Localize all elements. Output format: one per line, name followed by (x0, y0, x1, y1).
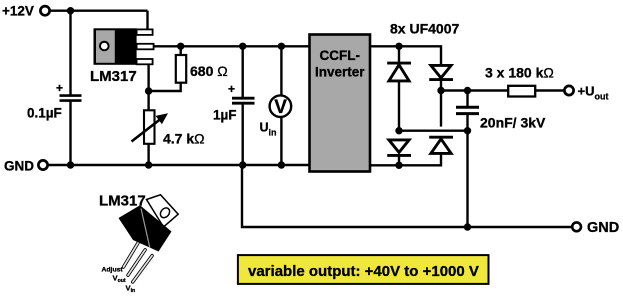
wire LM317 adj pin down (147, 64, 149, 111)
potentiometer P1 4.7k body (144, 110, 155, 144)
terminal +Uout (564, 86, 573, 95)
wire voltmeter branch lower (280, 117, 282, 165)
wire resistor to Uout terminal (535, 89, 564, 91)
node pot bottom junction (145, 161, 152, 168)
wire cap 20nF bottom lead (466, 115, 468, 131)
svg-text:GND: GND (587, 220, 619, 236)
wire out node horizontal (441, 89, 508, 91)
diode D2 (A bottom, pointing down) (387, 140, 411, 156)
body black box (119, 205, 172, 251)
resistor R2 3x180k (508, 86, 535, 97)
wire 680 top lead (179, 46, 181, 55)
svg-text:4.7 kΩ: 4.7 kΩ (163, 131, 205, 147)
wire voltmeter branch upper (280, 46, 282, 95)
wire 1uF branch lower (241, 104, 243, 165)
wire lower GND rail (242, 165, 572, 227)
wire 680 bottom lead to adj node (148, 83, 181, 92)
svg-text:+: + (228, 82, 235, 96)
svg-text:Inverter: Inverter (315, 65, 365, 80)
node B mid junction (437, 87, 444, 94)
wire mid rail from LM317 out (154, 45, 313, 47)
terminal GND left (38, 160, 47, 169)
node 1uF bottom junction (239, 161, 246, 168)
callout variable output box (238, 255, 489, 284)
svg-text:CCFL-: CCFL- (320, 48, 361, 63)
wire diode A top lead (398, 46, 400, 62)
wire GND rail left (48, 164, 312, 166)
wire diode B1 to mid node (440, 80, 442, 90)
svg-text:1µF: 1µF (213, 108, 237, 123)
pin Vin (top) (137, 29, 153, 35)
diode D3 (B top, pointing down) (429, 65, 453, 79)
wire cap 20nF top lead (466, 91, 468, 107)
voltmeter V1 (270, 95, 292, 118)
node adj junction (145, 87, 152, 94)
node 1uF top junction (239, 43, 246, 50)
capacitor C3 20nF plates (456, 107, 479, 113)
terminal GND right (572, 222, 581, 231)
node voltmeter bottom junction (278, 161, 285, 168)
potentiometer P1 arrow (132, 113, 169, 141)
svg-text:+: + (56, 81, 63, 95)
resistor R1 680 ohm (176, 55, 186, 83)
wire B mid down with crossover gap (440, 91, 442, 127)
svg-text:LM317: LM317 (90, 68, 137, 85)
node gnd-left junction (67, 161, 74, 168)
diode D4 (B bottom, pointing up) (429, 137, 453, 153)
wire diode A middle lead (398, 81, 400, 131)
wire 1uF branch upper (241, 46, 243, 97)
node cap-bottom junction (464, 127, 471, 134)
capacitor C1 0.1uF plates (60, 96, 82, 101)
wire top rail +12V (50, 9, 148, 11)
node voltmeter top junction (278, 43, 285, 50)
node A bottom junction (395, 162, 402, 169)
diode D1 (A top, pointing up) (387, 63, 411, 81)
svg-text:20nF/ 3kV: 20nF/ 3kV (480, 115, 546, 131)
svg-text:GND: GND (4, 159, 34, 174)
wire cap bottom to gnd rail (466, 131, 468, 227)
node A mid junction (395, 127, 402, 134)
pin Adj (bottom) (137, 59, 153, 64)
wire left rail lower (69, 102, 71, 166)
svg-text:3 x 180 kΩ: 3 x 180 kΩ (485, 65, 554, 81)
svg-text:variable output: +40V to +1000: variable output: +40V to +1000 V (248, 263, 479, 280)
wire inverter out top to diode B (368, 46, 441, 65)
svg-text:+12V: +12V (2, 4, 34, 19)
pin Vout (middle) (137, 44, 154, 50)
legs (124, 243, 153, 282)
node gnd rail junction (464, 223, 471, 230)
LM317 TO-220 3D package drawing (119, 195, 179, 282)
svg-text:V: V (274, 97, 287, 118)
wire pot bottom lead (147, 144, 149, 165)
wire vertical to LM317 Vin pin (146, 11, 148, 30)
CCFL inverter block U2 (310, 35, 371, 172)
node 680 top junction (177, 43, 184, 50)
tab metal with hole (147, 195, 179, 227)
node out junction (464, 87, 471, 94)
svg-text:8x UF4007: 8x UF4007 (390, 21, 459, 37)
wire mid horizontal A-mid to cap bottom (399, 129, 468, 131)
terminal +12V (40, 6, 49, 15)
capacitor C2 1uF plates (232, 98, 255, 103)
wire left rail upper (69, 11, 71, 95)
node bridge top junction (395, 43, 402, 50)
node top-left junction (67, 7, 74, 14)
wire diode A bottom lead (398, 156, 400, 165)
wire inverter out bottom to diode B2 (368, 154, 441, 166)
LM317 regulator U1 package (94, 28, 154, 65)
svg-text:680 Ω: 680 Ω (190, 63, 228, 79)
svg-text:0.1µF: 0.1µF (27, 106, 62, 121)
